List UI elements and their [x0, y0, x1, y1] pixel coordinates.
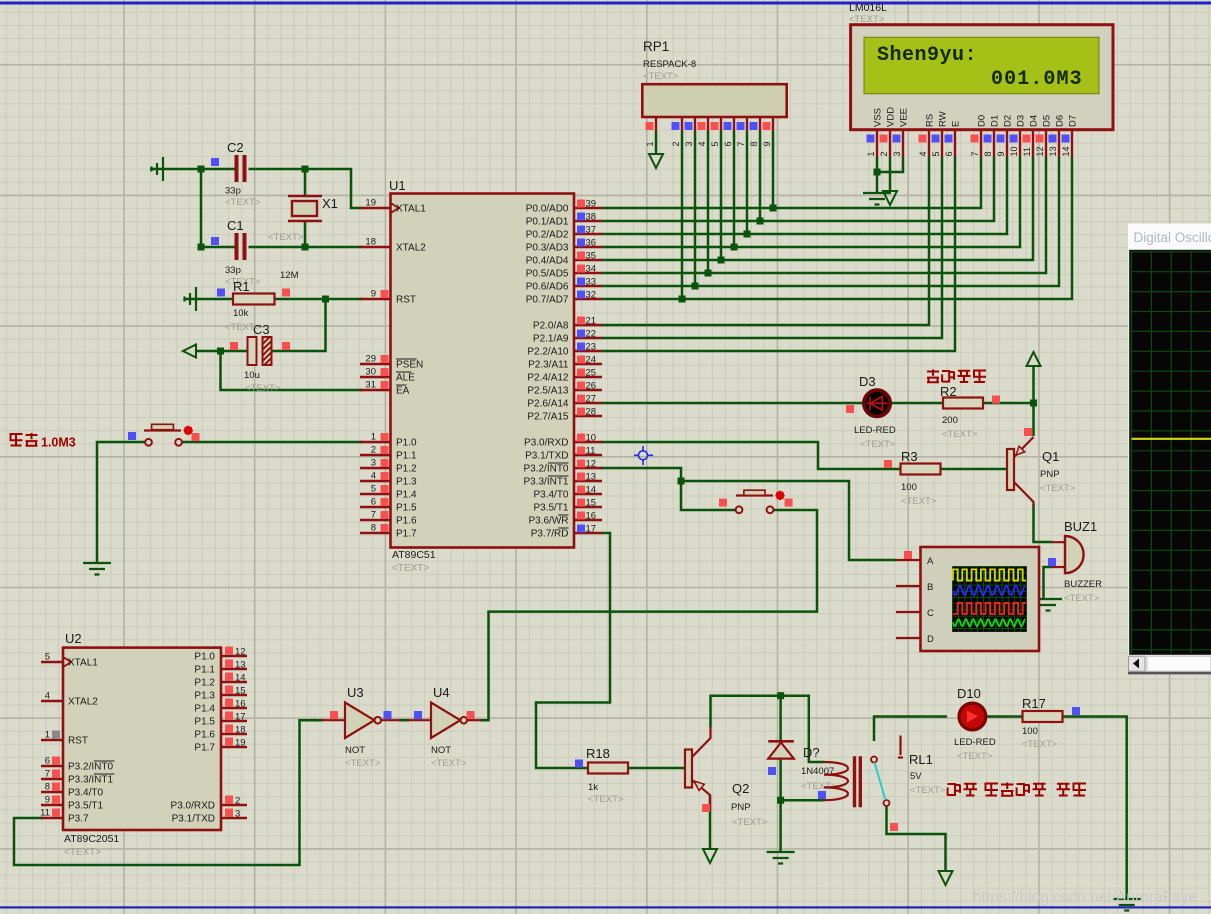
- svg-text:P2.1/A9: P2.1/A9: [533, 334, 569, 345]
- U2 pin 11 P3.7: [41, 817, 63, 819]
- U2 pin 12 P1.0: [221, 655, 247, 657]
- RP1 pin 3: [694, 117, 696, 131]
- resistor R2 200: [943, 398, 983, 409]
- U2 pin 4 XTAL2: [41, 700, 63, 702]
- svg-text:VEE: VEE: [899, 108, 910, 127]
- svg-text:P3.6/WR: P3.6/WR: [528, 516, 568, 527]
- svg-text:P3.4/T0: P3.4/T0: [68, 788, 103, 799]
- wire - RP1 pin 2 pull-up column: [681, 131, 684, 299]
- LCD pin 10 D3: [1019, 130, 1021, 157]
- svg-text:<TEXT>: <TEXT>: [942, 429, 978, 440]
- svg-text:6: 6: [371, 497, 376, 508]
- wire - Q1 emitter node to power terminal: [1032, 366, 1035, 403]
- ground - button SW1: [83, 563, 111, 575]
- svg-text:P1.4: P1.4: [194, 704, 215, 715]
- svg-text:<TEXT>: <TEXT>: [732, 817, 768, 828]
- U1 pin 13 P3.3/INT1: [574, 480, 602, 482]
- svg-text:9: 9: [996, 151, 1006, 156]
- relay RL1 switch: [871, 757, 877, 763]
- svg-text:R18: R18: [586, 746, 610, 761]
- scope display screen with waveforms: [953, 567, 1027, 632]
- svg-text:4: 4: [918, 151, 928, 156]
- svg-text:P1.3: P1.3: [194, 691, 215, 702]
- U1 pin 16 P3.6/WR: [574, 519, 602, 521]
- wire - relay coil bottom to diode branch: [781, 799, 824, 802]
- svg-text:35: 35: [586, 251, 597, 262]
- svg-text:X1: X1: [322, 196, 338, 211]
- svg-text:ALE: ALE: [396, 373, 415, 384]
- U1 pin 19 XTAL1: [360, 207, 390, 209]
- terminal arrow - LCD VDD: [883, 191, 897, 205]
- svg-text:13: 13: [586, 472, 597, 483]
- svg-text:12: 12: [586, 459, 597, 470]
- svg-text:RP1: RP1: [643, 39, 669, 54]
- svg-text:BUZZER: BUZZER: [1064, 579, 1102, 590]
- U1 pin 24 P2.3/A11: [574, 363, 602, 365]
- U1 pin 33 P0.6/AD6: [574, 285, 602, 287]
- terminal arrow - Q2 emitter ground: [703, 849, 717, 863]
- svg-text:17: 17: [235, 712, 246, 723]
- wire - INT0 node down to button SW2 left: [681, 481, 736, 510]
- wire - R17 right to ground rail: [1063, 717, 1127, 899]
- RP1 pin 8: [759, 117, 761, 131]
- svg-text:9: 9: [45, 795, 50, 806]
- svg-text:5V: 5V: [910, 771, 922, 782]
- svg-text:P3.3/INT1: P3.3/INT1: [523, 477, 568, 488]
- svg-text:9: 9: [762, 141, 772, 146]
- svg-text:15: 15: [235, 686, 246, 697]
- ground - buzzer: [1034, 599, 1062, 611]
- svg-text:<TEXT>: <TEXT>: [245, 383, 281, 394]
- svg-text:RST: RST: [68, 736, 88, 747]
- wire - P2.1/A9 to LCD RW: [601, 157, 942, 338]
- svg-text:P3.5/T1: P3.5/T1: [533, 503, 568, 514]
- U1 pin 1 P1.0: [360, 441, 390, 443]
- diode D? 1N4007: [768, 740, 794, 743]
- svg-text:5: 5: [371, 484, 376, 495]
- label - charge card 1.0M3: [10, 434, 23, 446]
- svg-text:PNP: PNP: [1040, 469, 1060, 480]
- svg-text:3: 3: [371, 458, 376, 469]
- svg-text:<TEXT>: <TEXT>: [345, 758, 381, 769]
- svg-text:33p: 33p: [225, 186, 241, 197]
- U1 pin 36 P0.3/AD3: [574, 246, 602, 248]
- svg-text:<TEXT>: <TEXT>: [1064, 593, 1100, 604]
- LCD pin 5 RW: [941, 130, 943, 157]
- svg-text:39: 39: [586, 199, 597, 210]
- svg-text:<TEXT>: <TEXT>: [588, 794, 624, 805]
- svg-text:VDD: VDD: [886, 107, 897, 127]
- svg-text:D0: D0: [977, 115, 988, 127]
- svg-text:16: 16: [586, 511, 597, 522]
- svg-text:11: 11: [1022, 147, 1032, 156]
- wire - LCD VEE pin3 to VSS net: [877, 157, 903, 172]
- svg-text:RST: RST: [396, 295, 416, 306]
- svg-text:001.0M3: 001.0M3: [991, 68, 1083, 91]
- svg-text:D6: D6: [1055, 115, 1066, 127]
- U2 pin 9 P3.5/T1: [41, 804, 63, 806]
- wire - LED D3 cathode to R2 left: [888, 402, 943, 405]
- svg-text:P0.0/AD0: P0.0/AD0: [526, 204, 569, 215]
- svg-text:2: 2: [671, 141, 681, 146]
- svg-text:D3: D3: [859, 374, 876, 389]
- svg-text:BUZ1: BUZ1: [1064, 519, 1097, 534]
- button SW1 actuator marker: [184, 426, 193, 435]
- RP1 pin 9: [772, 117, 774, 131]
- svg-text:P1.7: P1.7: [194, 743, 215, 754]
- U1 pin 11 P3.1/TXD: [574, 454, 602, 456]
- svg-text:8: 8: [749, 141, 759, 146]
- svg-text:P1.7: P1.7: [396, 529, 417, 540]
- svg-text:14: 14: [235, 673, 246, 684]
- U2 pin 1 RST: [41, 739, 63, 741]
- wire - RP1 pin 5 pull-up column: [720, 131, 723, 260]
- svg-text:E: E: [951, 121, 962, 127]
- svg-text:P0.6/AD6: P0.6/AD6: [526, 282, 569, 293]
- wire - R18 right to Q2 base: [629, 767, 687, 770]
- svg-text:https://blog.csdn.net/AuroraFa: https://blog.csdn.net/AuroraFaye: [973, 889, 1197, 906]
- svg-text:P3.0/RXD: P3.0/RXD: [171, 801, 215, 812]
- svg-text:12: 12: [235, 647, 246, 658]
- svg-text:P1.2: P1.2: [396, 464, 417, 475]
- svg-text:P2.0/A8: P2.0/A8: [533, 321, 569, 332]
- svg-text:<TEXT>: <TEXT>: [643, 71, 679, 82]
- svg-text:VSS: VSS: [873, 108, 884, 127]
- wire - P0.3/AD3 net to LCD D3: [601, 157, 1020, 247]
- svg-text:R3: R3: [901, 449, 918, 464]
- U1 pin 8 P1.7: [360, 532, 390, 534]
- wire - C1 right to XTAL2 pin18: [249, 246, 363, 249]
- U1 pin 3 P1.2: [360, 467, 390, 469]
- sheet border bottom (blue): [0, 906, 1211, 908]
- svg-text:<TEXT>: <TEXT>: [225, 197, 261, 208]
- wire - RP1 pin 6 pull-up column: [733, 131, 736, 247]
- wire - P2.0/A8 to LCD RS: [601, 157, 929, 325]
- wire - RP1 pin 3 pull-up column: [694, 131, 697, 286]
- svg-text:3: 3: [235, 809, 240, 820]
- U1 pin 7 P1.6: [360, 519, 390, 521]
- svg-text:U2: U2: [65, 631, 82, 646]
- svg-text:P2.4/A12: P2.4/A12: [527, 373, 569, 384]
- ground - R17 rail: [1113, 899, 1141, 911]
- NOT gate U3: [322, 719, 345, 721]
- svg-text:LED-RED: LED-RED: [954, 737, 996, 748]
- svg-text:11: 11: [586, 446, 596, 457]
- svg-text:P3.2/INT0: P3.2/INT0: [523, 464, 568, 475]
- wire - LCD VSS pin1 to ground: [876, 157, 879, 193]
- svg-text:3: 3: [892, 151, 902, 156]
- svg-text:Q2: Q2: [732, 781, 749, 796]
- svg-text:24: 24: [586, 355, 597, 366]
- U1 pin 9 RST: [360, 298, 390, 300]
- junction dots - oscillator / reset nets: [198, 166, 205, 173]
- wire - LED D10 cathode to R17: [987, 715, 1023, 718]
- svg-text:1: 1: [45, 730, 50, 741]
- svg-text:<TEXT>: <TEXT>: [1040, 483, 1076, 494]
- capacitor C2: [237, 155, 245, 182]
- U1 pin 32 P0.7/AD7: [574, 298, 602, 300]
- wire - P0.2/AD2 net to LCD D2: [601, 157, 1007, 234]
- svg-text:33: 33: [586, 277, 597, 288]
- svg-text:PSEN: PSEN: [396, 360, 423, 371]
- svg-text:14: 14: [586, 485, 597, 496]
- svg-text:34: 34: [586, 264, 597, 275]
- svg-text:31: 31: [365, 380, 376, 391]
- svg-text:11: 11: [40, 808, 50, 819]
- svg-text:Q1: Q1: [1042, 449, 1059, 464]
- svg-text:P1.6: P1.6: [396, 516, 417, 527]
- wire - U2 P3.7 pin11 to NOT U3 input: [14, 720, 323, 865]
- svg-text:<TEXT>: <TEXT>: [64, 847, 101, 858]
- svg-text:P1.1: P1.1: [194, 665, 215, 676]
- svg-text:4: 4: [697, 141, 707, 146]
- svg-text:P3.4/T0: P3.4/T0: [533, 490, 568, 501]
- svg-text:7: 7: [371, 510, 376, 521]
- svg-text:XTAL1: XTAL1: [396, 204, 426, 215]
- U1 pin 21 P2.0/A8: [574, 324, 602, 326]
- LCD pin 7 D0: [980, 130, 982, 157]
- svg-text:P1.1: P1.1: [396, 451, 417, 462]
- U1 pin 27 P2.6/A14: [574, 402, 602, 404]
- buzzer BUZ1: [1052, 542, 1065, 567]
- button SW2 actuator marker: [775, 491, 784, 500]
- svg-text:26: 26: [586, 381, 597, 392]
- wire - P3.7/RD down to R18 feed: [536, 533, 610, 768]
- svg-text:AT89C2051: AT89C2051: [64, 833, 119, 845]
- U1 pin 17 P3.7/RD: [574, 532, 602, 534]
- wire - R1 right to RST pin9: [275, 298, 363, 301]
- wire - D? diode branch vertical: [779, 696, 782, 851]
- svg-text:P0.7/AD7: P0.7/AD7: [526, 295, 569, 306]
- svg-text:1: 1: [371, 432, 376, 443]
- svg-text:19: 19: [235, 738, 246, 749]
- svg-text:<TEXT>: <TEXT>: [901, 496, 937, 507]
- wire - X1 top to C2 net: [304, 169, 307, 196]
- svg-text:8: 8: [371, 523, 376, 534]
- svg-text:NOT: NOT: [345, 745, 365, 756]
- svg-text:7: 7: [736, 141, 746, 146]
- svg-text:P1.3: P1.3: [396, 477, 417, 488]
- capacitor C3 10u polarized: [248, 337, 257, 365]
- svg-text:6: 6: [944, 151, 954, 156]
- ground - oscillator left: [152, 157, 164, 181]
- svg-text:P2.2/A10: P2.2/A10: [527, 347, 569, 358]
- svg-text:1k: 1k: [588, 782, 598, 793]
- RP1 pin 4: [707, 117, 709, 131]
- oscilloscope screen: [1129, 250, 1211, 655]
- svg-text:<TEXT>: <TEXT>: [268, 232, 304, 243]
- svg-text:21: 21: [586, 316, 597, 327]
- svg-text:13: 13: [1048, 146, 1058, 156]
- svg-text:10k: 10k: [233, 308, 249, 319]
- svg-text:LM016L: LM016L: [849, 2, 887, 14]
- NOT gate U4: [408, 719, 431, 721]
- LCD pin 8 D1: [993, 130, 995, 157]
- svg-text:32: 32: [586, 290, 597, 301]
- wire - ground to R1 left: [184, 298, 233, 301]
- svg-text:30: 30: [365, 367, 376, 378]
- wire - X1 bottom to C1 net: [304, 221, 307, 247]
- svg-text:6: 6: [45, 756, 50, 767]
- U1 pin 14 P3.4/T0: [574, 493, 602, 495]
- svg-text:AT89C51: AT89C51: [392, 549, 436, 561]
- wire - P0.5/AD5 net to LCD D5: [601, 157, 1046, 273]
- wire - P0.7/AD7 net to LCD D7: [601, 157, 1072, 299]
- svg-text:18: 18: [235, 725, 246, 736]
- wire - P2.6/A14 to LED D3 anode: [601, 402, 866, 405]
- svg-text:7: 7: [45, 769, 50, 780]
- wire - Q1 collector to buzzer +: [1034, 504, 1053, 542]
- LED D10 LED-RED (on): [959, 703, 986, 730]
- terminal arrow - relay NO ground: [939, 871, 953, 885]
- svg-text:8: 8: [983, 151, 993, 156]
- wire - RP1 pin 4 pull-up column: [707, 131, 710, 273]
- svg-text:2: 2: [235, 796, 240, 807]
- svg-text:P2.3/A11: P2.3/A11: [528, 360, 569, 371]
- svg-text:D2: D2: [1003, 115, 1014, 127]
- svg-text:P0.2/AD2: P0.2/AD2: [526, 230, 569, 241]
- U1 pin 4 P1.3: [360, 480, 390, 482]
- wire - RST net down to C3 right plate: [272, 299, 326, 351]
- svg-text:36: 36: [586, 238, 597, 249]
- U1 pin 15 P3.5/T1: [574, 506, 602, 508]
- svg-text:P3.7: P3.7: [68, 814, 89, 825]
- U1 pin 18 XTAL2: [360, 246, 390, 248]
- svg-text:38: 38: [586, 212, 597, 223]
- svg-text:14: 14: [1061, 146, 1071, 156]
- U2 pin 3 P3.1/TXD: [221, 817, 247, 819]
- U1 pin 31 EA: [360, 389, 390, 391]
- svg-text:RS: RS: [925, 114, 936, 127]
- U1 pin 38 P0.1/AD1: [574, 220, 602, 222]
- wire - P0.6/AD6 net to LCD D6: [601, 157, 1059, 286]
- wire - R3 right to Q1 base: [941, 468, 1009, 471]
- capacitor C1: [237, 233, 245, 260]
- U1 pin 5 P1.4: [360, 493, 390, 495]
- U2 pin 13 P1.1: [221, 668, 247, 670]
- svg-text:2: 2: [879, 151, 889, 156]
- wire - C2 right to XTAL1 pin19: [249, 169, 363, 208]
- svg-text:12M: 12M: [280, 270, 299, 281]
- wire - button SW1 right to P1.0 pin1: [182, 441, 362, 444]
- U1 pin 29 PSEN: [360, 363, 390, 365]
- wire - P2.2/A10 to LCD E: [601, 157, 955, 351]
- svg-text:R1: R1: [233, 279, 250, 294]
- svg-text:XTAL1: XTAL1: [68, 658, 98, 669]
- svg-text:5: 5: [931, 151, 941, 156]
- svg-text:RESPACK-8: RESPACK-8: [643, 59, 696, 70]
- wire - P0.4/AD4 net to LCD D4: [601, 157, 1033, 260]
- svg-text:7: 7: [970, 151, 980, 156]
- svg-text:23: 23: [586, 342, 597, 353]
- svg-text:D7: D7: [1068, 115, 1079, 127]
- wire - Q2 collector rail: [711, 696, 825, 762]
- resistor R17 100: [1023, 711, 1063, 722]
- svg-text:12: 12: [1035, 146, 1045, 156]
- svg-text:R17: R17: [1022, 696, 1046, 711]
- svg-text:33p: 33p: [225, 265, 241, 276]
- U2 pin 16 P1.4: [221, 707, 247, 709]
- svg-text:15: 15: [586, 498, 597, 509]
- LCD pin 4 RS: [928, 130, 930, 157]
- svg-text:P0.4/AD4: P0.4/AD4: [526, 256, 569, 267]
- svg-text:6: 6: [723, 141, 733, 146]
- svg-text:1: 1: [645, 141, 655, 146]
- ground - diode/coil branch: [767, 852, 795, 864]
- svg-text:28: 28: [586, 407, 597, 418]
- svg-text:16: 16: [235, 699, 246, 710]
- svg-text:1: 1: [866, 151, 876, 156]
- wire - P3.0/RXD to R3 left: [601, 442, 901, 469]
- RP1 pin 2: [681, 117, 683, 131]
- wire - relay NO contact to terminal: [887, 806, 946, 870]
- wire - button SW1 left to ground: [97, 442, 145, 562]
- svg-text:10u: 10u: [244, 370, 260, 381]
- wire - Q1 emitter lead: [1032, 403, 1035, 436]
- svg-text:P3.2/INT0: P3.2/INT0: [68, 762, 113, 773]
- relay RL1 coil: [824, 762, 848, 800]
- svg-text:D3: D3: [1016, 115, 1027, 127]
- svg-text:3: 3: [684, 141, 694, 146]
- svg-text:5: 5: [710, 141, 720, 146]
- svg-text:37: 37: [586, 225, 597, 236]
- svg-text:5: 5: [45, 652, 50, 663]
- ground - LCD VSS: [863, 193, 891, 205]
- RP1 pin 6: [733, 117, 735, 131]
- svg-text:PNP: PNP: [731, 802, 751, 813]
- svg-text:<TEXT>: <TEXT>: [957, 751, 993, 762]
- svg-text:P3.1/TXD: P3.1/TXD: [525, 451, 568, 462]
- svg-text:D: D: [927, 634, 934, 645]
- 4-channel scope display module: [921, 547, 1040, 651]
- wire - C3 left plate to input terminal: [196, 350, 248, 353]
- svg-text:P2.5/A13: P2.5/A13: [527, 386, 569, 397]
- svg-text:B: B: [927, 582, 933, 593]
- svg-text:D?: D?: [803, 745, 820, 760]
- terminal arrow - Q1 power: [1027, 352, 1041, 366]
- svg-text:C1: C1: [227, 218, 244, 233]
- U1 pin 6 P1.5: [360, 506, 390, 508]
- svg-text:XTAL2: XTAL2: [396, 243, 426, 254]
- RP1 pin 7: [746, 117, 748, 131]
- svg-text:R2: R2: [940, 384, 957, 399]
- crystal X1: [288, 196, 322, 221]
- svg-text:C2: C2: [227, 140, 244, 155]
- cursor crosshair marker: [634, 446, 653, 465]
- resistor R1 10k: [233, 294, 275, 305]
- U2 pin 6 P3.2/INT0: [41, 765, 63, 767]
- microcontroller U1 AT89C51: [391, 194, 575, 548]
- transistor Q2 PNP: [685, 750, 692, 788]
- LCD pin 6 E: [954, 130, 956, 157]
- push button SW1 (charge card): [145, 439, 152, 446]
- svg-text:29: 29: [365, 354, 376, 365]
- svg-text:P1.5: P1.5: [194, 717, 215, 728]
- svg-text:13: 13: [235, 660, 246, 671]
- wire - RP1 pin 7 pull-up column: [746, 131, 749, 234]
- svg-text:200: 200: [942, 415, 958, 426]
- U2 XTAL1 clock chevron: [64, 658, 71, 667]
- RP1 pin 1: [655, 117, 657, 131]
- svg-text:25: 25: [586, 368, 597, 379]
- svg-text:100: 100: [1022, 726, 1038, 737]
- svg-text:C: C: [927, 608, 934, 619]
- push button SW2: [736, 506, 743, 513]
- svg-text:P0.5/AD5: P0.5/AD5: [526, 269, 569, 280]
- label - sound-light alarm: [927, 370, 939, 383]
- U2 pin 8 P3.4/T0: [41, 791, 63, 793]
- U2 pin 18 P1.6: [221, 733, 247, 735]
